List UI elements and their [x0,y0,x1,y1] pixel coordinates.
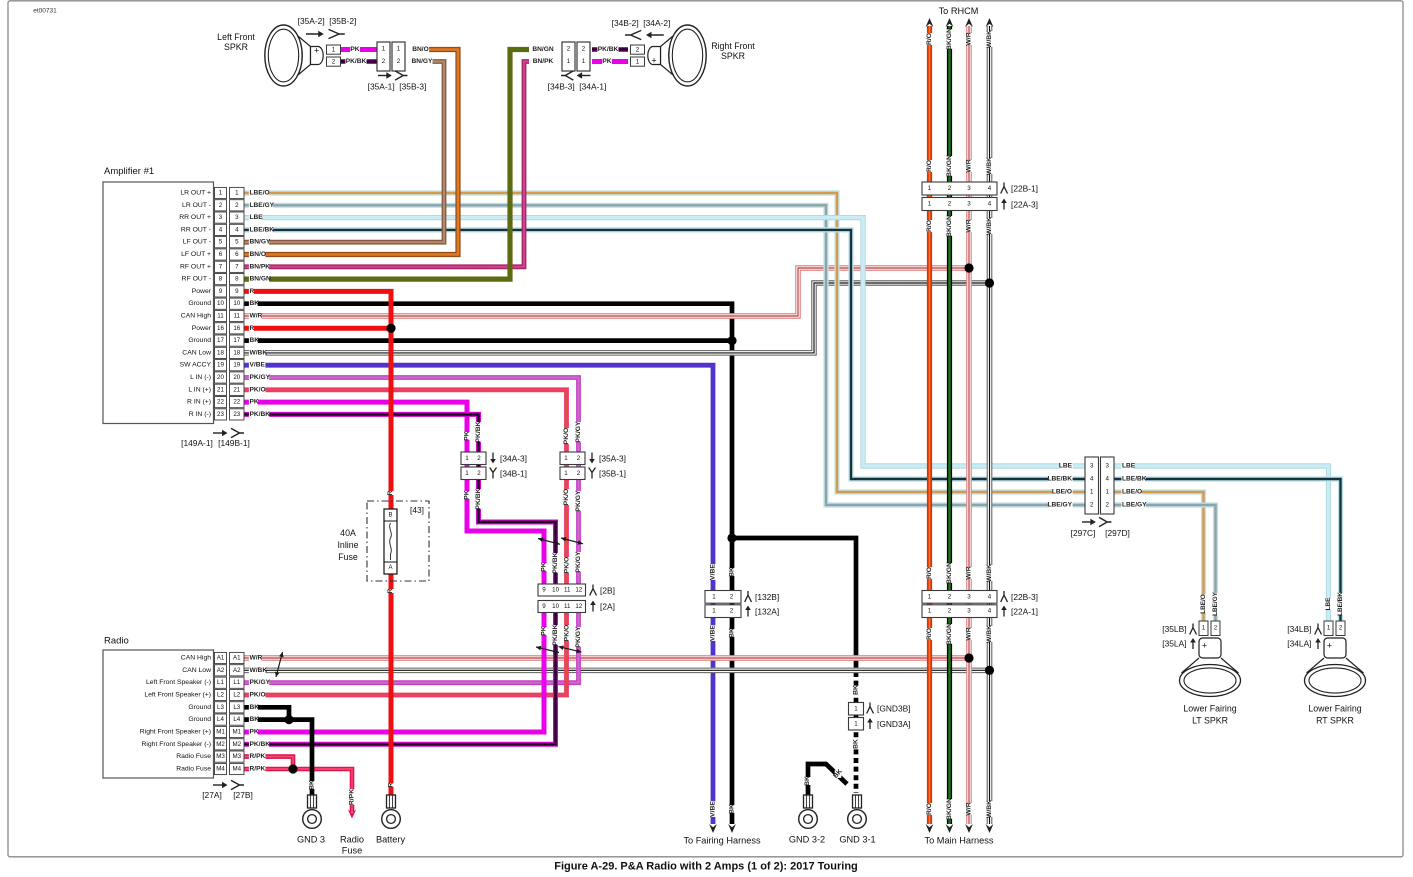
svg-text:1: 1 [928,201,932,208]
svg-text:L4: L4 [217,716,224,723]
svg-text:[35A-3]: [35A-3] [599,454,626,464]
svg-text:[22A-1]: [22A-1] [1011,607,1038,617]
svg-text:BK/GN: BK/GN [946,623,953,645]
svg-text:19: 19 [233,362,240,369]
svg-text:1: 1 [397,46,401,53]
svg-text:A2: A2 [217,667,225,674]
svg-text:2: 2 [382,58,386,65]
svg-text:W/BK: W/BK [986,217,993,235]
svg-text:1: 1 [636,58,640,65]
svg-text:6: 6 [235,251,239,258]
svg-text:20: 20 [233,374,240,381]
svg-text:[27A]: [27A] [202,790,222,800]
svg-text:PK/BK: PK/BK [552,624,559,645]
svg-text:[GND3A]: [GND3A] [877,719,911,729]
svg-text:Right Front: Right Front [711,41,755,51]
svg-text:LBE: LBE [1325,597,1332,611]
svg-text:PK/BK: PK/BK [250,411,271,418]
svg-text:PK/O: PK/O [250,692,266,699]
svg-text:Radio Fuse: Radio Fuse [176,766,211,773]
svg-text:R: R [388,782,395,787]
svg-text:W/BK: W/BK [250,667,268,674]
svg-text:To Main Harness: To Main Harness [925,836,994,846]
svg-text:[132B]: [132B] [755,592,779,602]
svg-text:Ground: Ground [188,337,211,344]
svg-text:BK: BK [853,685,860,695]
svg-text:BK/GN: BK/GN [946,562,953,584]
svg-text:W/R: W/R [966,566,973,579]
svg-text:1: 1 [712,608,716,615]
svg-text:1: 1 [564,470,568,477]
svg-text:LBE/BK: LBE/BK [250,226,275,233]
svg-text:[2B]: [2B] [600,586,615,596]
svg-text:3: 3 [219,214,223,221]
svg-text:PK/BK: PK/BK [346,58,367,65]
svg-text:M1: M1 [216,729,225,736]
svg-text:[35A-1] [35B-3]: [35A-1] [35B-3] [368,82,427,92]
svg-text:[43]: [43] [410,505,424,515]
svg-text:1: 1 [235,190,239,197]
svg-text:9: 9 [235,288,239,295]
svg-text:+: + [1327,641,1332,651]
svg-text:Right Front Speaker (+): Right Front Speaker (+) [140,729,211,736]
svg-text:Left Front Speaker (+): Left Front Speaker (+) [144,692,211,699]
svg-text:Power: Power [192,325,212,332]
svg-text:BK/GN: BK/GN [946,28,953,50]
svg-text:3: 3 [967,608,971,615]
svg-text:4: 4 [235,226,239,233]
svg-text:W/BK: W/BK [986,625,993,643]
svg-text:R IN (-): R IN (-) [189,411,211,418]
svg-text:2: 2 [577,455,581,462]
svg-text:BK: BK [250,337,260,344]
svg-text:Ground: Ground [188,716,211,723]
svg-text:3: 3 [967,594,971,601]
svg-text:RR OUT -: RR OUT - [181,226,211,233]
svg-text:Fuse: Fuse [338,552,358,562]
svg-text:8: 8 [235,276,239,283]
svg-text:LBE/O: LBE/O [250,190,270,197]
svg-text:22: 22 [217,399,224,406]
svg-text:4: 4 [988,608,992,615]
svg-text:+: + [651,56,656,66]
svg-text:PK/BK: PK/BK [475,488,482,509]
svg-text:R/PK: R/PK [250,766,266,773]
svg-text:M4: M4 [216,766,225,773]
svg-text:4: 4 [1105,476,1109,483]
svg-text:PK: PK [541,626,548,636]
svg-text:LBE: LBE [250,214,264,221]
svg-text:9: 9 [219,288,223,295]
svg-text:R: R [250,325,255,332]
svg-text:21: 21 [233,386,240,393]
svg-text:A1: A1 [217,655,225,662]
svg-text:2: 2 [397,58,401,65]
svg-text:7: 7 [235,263,239,270]
svg-text:2: 2 [582,46,586,53]
svg-text:PK/O: PK/O [563,428,570,445]
svg-text:BK: BK [250,716,260,723]
svg-text:W/R: W/R [250,655,263,662]
svg-text:M2: M2 [216,741,225,748]
svg-text:BK/GN: BK/GN [946,798,953,820]
svg-text:M3: M3 [232,753,241,760]
svg-text:To RHCM: To RHCM [939,6,979,16]
svg-text:3: 3 [1105,463,1109,470]
svg-text:BN/PK: BN/PK [250,263,271,270]
svg-text:1: 1 [712,594,716,601]
svg-text:R: R [250,288,255,295]
svg-text:17: 17 [217,337,224,344]
svg-text:BK: BK [729,628,736,638]
svg-text:2: 2 [567,46,571,53]
svg-text:[297C]: [297C] [1071,528,1096,538]
svg-text:Left Front: Left Front [217,32,255,42]
svg-text:R/PK: R/PK [349,789,356,805]
svg-text:BN/O: BN/O [250,251,266,258]
svg-text:PK/BK: PK/BK [475,421,482,442]
svg-text:PK/BK: PK/BK [250,741,271,748]
svg-text:M1: M1 [232,729,241,736]
svg-text:9: 9 [542,587,546,594]
svg-text:2: 2 [219,202,223,209]
svg-text:R/O: R/O [926,803,933,815]
svg-text:GND 3-1: GND 3-1 [839,835,875,845]
svg-text:4: 4 [1090,476,1094,483]
svg-text:R/O: R/O [926,33,933,45]
svg-text:W/R: W/R [966,219,973,232]
svg-text:CAN High: CAN High [181,655,211,662]
svg-text:BN/GN: BN/GN [532,46,553,53]
svg-text:16: 16 [233,325,240,332]
svg-text:LR OUT +: LR OUT + [180,190,211,197]
svg-text:2: 2 [948,201,952,208]
svg-text:[27B]: [27B] [233,790,253,800]
svg-text:LF OUT +: LF OUT + [181,251,211,258]
svg-text:BK: BK [729,804,736,814]
svg-text:1: 1 [1090,489,1094,496]
svg-text:2: 2 [235,202,239,209]
svg-text:BN/O: BN/O [412,46,428,53]
svg-text:R/O: R/O [926,567,933,579]
svg-text:PK/GY: PK/GY [250,374,271,381]
svg-text:[35LB]: [35LB] [1162,624,1186,634]
svg-text:RT SPKR: RT SPKR [1316,716,1354,726]
svg-text:[149A-1]: [149A-1] [181,438,213,448]
svg-text:8: 8 [219,276,223,283]
svg-text:PK/BK: PK/BK [598,46,619,53]
svg-text:PK: PK [602,58,611,65]
svg-text:L2: L2 [233,692,240,699]
svg-text:W/BK: W/BK [250,349,268,356]
svg-text:W/R: W/R [966,627,973,640]
svg-text:M4: M4 [232,766,241,773]
svg-text:BN/GY: BN/GY [250,239,271,246]
svg-text:W/R: W/R [966,159,973,172]
svg-text:[34A-3]: [34A-3] [500,454,527,464]
svg-text:1: 1 [854,720,858,727]
svg-text:LBE/BK: LBE/BK [1337,592,1344,616]
svg-text:BK/GN: BK/GN [946,155,953,177]
svg-text:W/BK: W/BK [986,564,993,582]
svg-text:1: 1 [928,608,932,615]
svg-text:1: 1 [219,190,223,197]
svg-text:12: 12 [575,603,582,610]
svg-text:PK/O: PK/O [564,625,571,642]
svg-text:1: 1 [567,58,571,65]
svg-text:18: 18 [217,349,224,356]
svg-text:10: 10 [552,587,559,594]
svg-text:+: + [314,46,319,56]
svg-text:Fuse: Fuse [342,846,362,856]
svg-text:[GND3B]: [GND3B] [877,704,911,714]
svg-text:[35B-1]: [35B-1] [599,469,626,479]
svg-text:R: R [387,588,394,593]
svg-text:SPKR: SPKR [224,42,248,52]
svg-text:V/BE: V/BE [710,625,717,641]
svg-text:R/O: R/O [926,220,933,232]
svg-text:PK: PK [250,729,259,736]
svg-text:[34B-1]: [34B-1] [500,469,527,479]
svg-text:2: 2 [477,470,481,477]
svg-text:3: 3 [967,201,971,208]
svg-text:[34B-3] [34A-1]: [34B-3] [34A-1] [548,82,607,92]
svg-text:3: 3 [967,185,971,192]
svg-text:BK: BK [250,704,260,711]
svg-text:LBE: LBE [1122,463,1136,470]
svg-text:LBE/BK: LBE/BK [1047,476,1072,483]
svg-text:BK: BK [250,300,260,307]
svg-text:PK/O: PK/O [250,386,266,393]
svg-text:R IN (+): R IN (+) [187,399,211,406]
svg-text:16: 16 [217,325,224,332]
svg-text:L IN (-): L IN (-) [190,374,211,381]
svg-text:11: 11 [217,313,224,320]
svg-text:V/BE: V/BE [710,801,717,817]
svg-text:23: 23 [217,411,224,418]
svg-text:21: 21 [217,386,224,393]
svg-text:11: 11 [234,313,241,320]
svg-text:1: 1 [854,705,858,712]
svg-text:R/O: R/O [926,628,933,640]
svg-text:Radio: Radio [340,835,364,845]
svg-text:RF OUT -: RF OUT - [182,276,211,283]
svg-text:LT SPKR: LT SPKR [1192,716,1228,726]
svg-text:4: 4 [219,226,223,233]
svg-text:W/R: W/R [966,32,973,45]
svg-text:2: 2 [1090,502,1094,509]
svg-text:+: + [1202,641,1207,651]
svg-text:L1: L1 [233,679,240,686]
svg-text:LBE/O: LBE/O [1122,489,1142,496]
svg-text:2: 2 [636,46,640,53]
svg-text:PK/GY: PK/GY [575,421,582,443]
svg-text:1: 1 [465,455,469,462]
svg-text:7: 7 [219,263,223,270]
svg-text:2: 2 [477,455,481,462]
svg-text:1: 1 [928,594,932,601]
svg-text:LR OUT -: LR OUT - [182,202,211,209]
svg-text:2: 2 [730,608,734,615]
svg-text:LBE/GY: LBE/GY [250,202,275,209]
svg-text:R/O: R/O [926,160,933,172]
svg-text:2: 2 [577,470,581,477]
svg-text:10: 10 [217,300,224,307]
svg-text:A2: A2 [233,667,241,674]
svg-text:LBE/GY: LBE/GY [1122,502,1147,509]
svg-text:4: 4 [988,594,992,601]
svg-text:L1: L1 [217,679,224,686]
svg-text:BK: BK [729,567,736,577]
svg-text:12: 12 [575,587,582,594]
svg-text:BK: BK [309,780,316,790]
svg-text:[34LA]: [34LA] [1287,639,1311,649]
svg-text:11: 11 [564,587,571,594]
svg-text:CAN High: CAN High [181,313,211,320]
svg-text:LBE/GY: LBE/GY [1047,502,1072,509]
svg-text:5: 5 [235,239,239,246]
svg-text:A1: A1 [233,655,241,662]
svg-text:A: A [388,565,392,571]
svg-text:CAN Low: CAN Low [182,667,211,674]
svg-text:Ground: Ground [188,300,211,307]
svg-text:BN/PK: BN/PK [533,58,554,65]
svg-text:W/R: W/R [250,313,263,320]
svg-text:To Fairing Harness: To Fairing Harness [683,836,761,846]
svg-text:10: 10 [233,300,240,307]
svg-text:GND 3: GND 3 [297,835,325,845]
svg-text:Inline: Inline [337,540,358,550]
svg-text:2: 2 [948,185,952,192]
svg-text:3: 3 [235,214,239,221]
svg-text:LBE/O: LBE/O [1200,594,1207,614]
svg-text:3: 3 [1090,463,1094,470]
svg-text:1: 1 [564,455,568,462]
svg-text:L4: L4 [233,716,240,723]
svg-text:1: 1 [382,46,386,53]
svg-text:1: 1 [332,46,336,53]
svg-text:[35LA]: [35LA] [1162,639,1186,649]
svg-text:Battery: Battery [376,835,406,845]
svg-text:4: 4 [988,201,992,208]
svg-text:2: 2 [332,58,336,65]
svg-text:PK/GY: PK/GY [575,551,582,573]
svg-text:1: 1 [465,470,469,477]
svg-text:B: B [388,513,392,519]
svg-text:PK: PK [541,562,548,572]
svg-text:Left Front Speaker (-): Left Front Speaker (-) [146,679,211,686]
svg-text:et00731: et00731 [33,8,57,15]
svg-text:LBE/BK: LBE/BK [1122,476,1147,483]
svg-text:L3: L3 [217,704,224,711]
svg-text:LBE: LBE [1059,463,1073,470]
svg-text:CAN Low: CAN Low [182,349,211,356]
svg-text:SPKR: SPKR [721,51,745,61]
svg-text:PK/GY: PK/GY [575,626,582,648]
svg-text:LBE/GY: LBE/GY [1212,591,1219,616]
svg-text:BN/GY: BN/GY [412,58,433,65]
svg-text:[149B-1]: [149B-1] [218,438,250,448]
svg-text:PK/GY: PK/GY [575,490,582,512]
svg-text:[132A]: [132A] [755,607,779,617]
svg-text:PK/O: PK/O [564,557,571,574]
svg-text:Right Front Speaker (-): Right Front Speaker (-) [141,741,211,748]
svg-text:PK: PK [250,399,259,406]
svg-text:RR OUT +: RR OUT + [179,214,211,221]
svg-text:[35A-2] [35B-2]: [35A-2] [35B-2] [298,16,357,26]
svg-text:M2: M2 [232,741,241,748]
svg-text:LF OUT -: LF OUT - [183,239,211,246]
svg-text:[34B-2] [34A-2]: [34B-2] [34A-2] [612,18,671,28]
svg-text:V/BE: V/BE [710,564,717,580]
svg-text:W/BK: W/BK [986,30,993,48]
svg-text:RF OUT +: RF OUT + [180,263,211,270]
svg-text:L3: L3 [233,704,240,711]
svg-text:PK/BK: PK/BK [552,552,559,573]
svg-text:BK: BK [804,776,811,786]
svg-text:R/PK: R/PK [250,753,266,760]
svg-text:5: 5 [219,239,223,246]
svg-text:Figure A-29. P&A Radio with 2: Figure A-29. P&A Radio with 2 Amps (1 of… [554,861,858,873]
svg-text:2: 2 [1105,502,1109,509]
svg-text:PK/GY: PK/GY [250,679,271,686]
svg-text:6: 6 [219,251,223,258]
svg-text:9: 9 [542,603,546,610]
svg-text:Lower Fairing: Lower Fairing [1308,704,1361,714]
svg-text:Lower Fairing: Lower Fairing [1183,704,1236,714]
svg-text:Radio Fuse: Radio Fuse [176,753,211,760]
svg-text:19: 19 [217,362,224,369]
svg-text:W/R: W/R [966,802,973,815]
svg-text:BK: BK [853,739,860,749]
svg-text:W/BK: W/BK [986,800,993,818]
svg-text:40A: 40A [340,528,356,538]
svg-text:Amplifier #1: Amplifier #1 [104,166,154,177]
svg-text:BN/GN: BN/GN [250,276,271,283]
svg-text:PK: PK [464,490,471,500]
svg-text:4: 4 [988,185,992,192]
svg-text:2: 2 [730,594,734,601]
svg-text:20: 20 [217,374,224,381]
svg-text:BK/GN: BK/GN [946,215,953,237]
svg-text:[2A]: [2A] [600,602,615,612]
svg-text:L2: L2 [217,692,224,699]
svg-text:PK/O: PK/O [563,489,570,506]
svg-text:SW ACCY: SW ACCY [180,362,212,369]
svg-text:10: 10 [552,603,559,610]
svg-text:Power: Power [192,288,212,295]
svg-text:22: 22 [233,399,240,406]
svg-text:Radio: Radio [104,636,129,647]
svg-text:2: 2 [948,608,952,615]
svg-text:GND 3-2: GND 3-2 [789,835,825,845]
svg-text:[22A-3]: [22A-3] [1011,200,1038,210]
svg-text:[22B-1]: [22B-1] [1011,184,1038,194]
svg-text:1: 1 [582,58,586,65]
svg-text:1: 1 [928,185,932,192]
svg-text:M3: M3 [216,753,225,760]
svg-text:LBE/O: LBE/O [1052,489,1072,496]
svg-text:11: 11 [564,603,571,610]
svg-text:17: 17 [233,337,240,344]
svg-text:L IN (+): L IN (+) [188,386,211,393]
svg-text:Ground: Ground [188,704,211,711]
svg-text:PK: PK [350,46,359,53]
svg-text:PK: PK [464,431,471,441]
svg-text:23: 23 [233,411,240,418]
svg-text:R: R [387,490,394,495]
svg-text:2: 2 [948,594,952,601]
